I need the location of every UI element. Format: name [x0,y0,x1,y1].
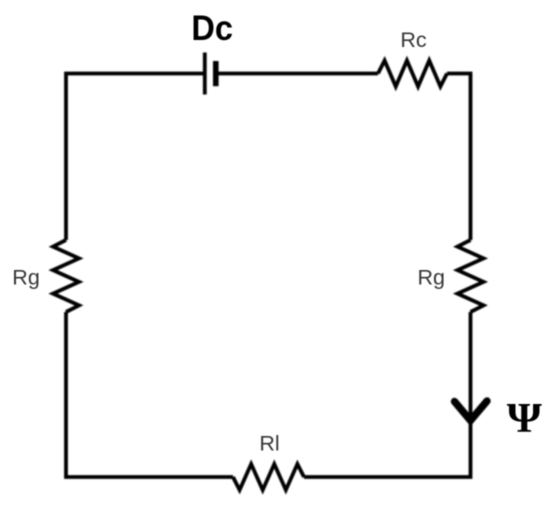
label Dc [191,9,233,48]
battery Dc short plate [213,61,219,86]
resistor Rg right [458,240,484,312]
svg-text:Dc: Dc [191,9,233,48]
svg-text:Rg: Rg [12,266,39,290]
wire top-middle (battery to resistor Rc) [218,72,378,76]
battery Dc long plate [203,53,207,95]
wire bottom-left (resistor Rl to bottom-left corner + left vertical lower segment) [66,312,233,477]
wire top-right (resistor Rc to top-right corner + right vertical upper segment) [447,74,471,241]
svg-text:Rc: Rc [400,28,427,52]
resistor Rc [378,61,447,87]
wire top-left (left vertical upper segment + top-left corner + top wire to battery) [66,74,203,241]
arrow current direction Psi [455,401,488,421]
resistor Rl [233,464,304,490]
wire right-lower (resistor Rg to bottom-right corner and bottom wire to resistor Rl) [304,312,471,477]
svg-text:Rl: Rl [259,432,279,456]
resistor Rg left [53,240,79,312]
svg-text:Ψ: Ψ [507,395,542,441]
label Psi [507,395,542,441]
svg-text:Rg: Rg [418,266,445,290]
